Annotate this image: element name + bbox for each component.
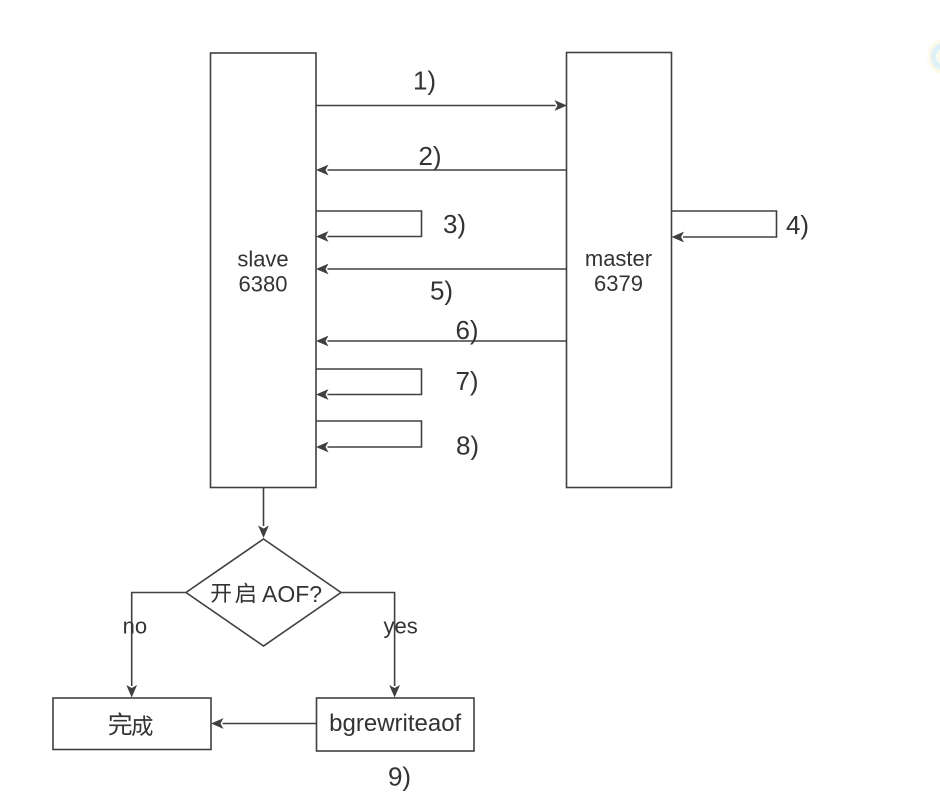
no branch wire	[126, 593, 186, 698]
glyph 开	[211, 584, 231, 603]
self-loop 8 on slave	[316, 421, 422, 452]
完成 label	[109, 712, 153, 736]
arrow slave to decision diamond	[258, 488, 269, 538]
svg-text:master: master	[585, 246, 652, 271]
arrow bgrewriteaof to 完成	[211, 718, 317, 729]
svg-text:4): 4)	[786, 210, 809, 240]
svg-text:8): 8)	[456, 431, 479, 461]
svg-text:5): 5)	[430, 276, 453, 306]
svg-text:bgrewriteaof: bgrewriteaof	[329, 710, 461, 737]
svg-text:1): 1)	[413, 66, 436, 96]
watermark circle top-right	[927, 39, 940, 74]
svg-text:7): 7)	[455, 366, 478, 396]
decision diamond	[186, 539, 341, 646]
svg-text:no: no	[123, 614, 147, 639]
arrow 6 master to slave	[316, 336, 567, 347]
bgrewriteaof box	[317, 698, 475, 751]
master box	[567, 53, 672, 488]
arrow 5 master to slave	[316, 264, 567, 275]
svg-text:6379: 6379	[594, 271, 643, 296]
arrow 1 slave to master	[316, 100, 567, 111]
self-loop 7 on slave	[316, 369, 422, 400]
svg-text:6): 6)	[455, 315, 478, 345]
diamond text 开启 AOF?	[211, 581, 322, 607]
svg-text:slave: slave	[237, 247, 288, 272]
svg-text:9): 9)	[388, 762, 411, 792]
glyph 成	[132, 715, 153, 736]
svg-text:yes: yes	[383, 614, 417, 639]
svg-text:6380: 6380	[239, 272, 288, 297]
self-loop 4 on master	[672, 211, 777, 242]
master label	[585, 246, 652, 296]
slave label	[237, 247, 288, 297]
完成 box	[53, 698, 211, 750]
svg-text:2): 2)	[418, 141, 441, 171]
glyph 完	[109, 712, 132, 735]
yes branch wire	[341, 593, 400, 698]
glyph 启	[235, 583, 254, 604]
svg-text:AOF?: AOF?	[262, 581, 322, 607]
self-loop 3 on slave	[316, 211, 422, 242]
arrow 2 master to slave	[316, 165, 567, 176]
svg-text:3): 3)	[443, 209, 466, 239]
slave box	[211, 53, 317, 488]
